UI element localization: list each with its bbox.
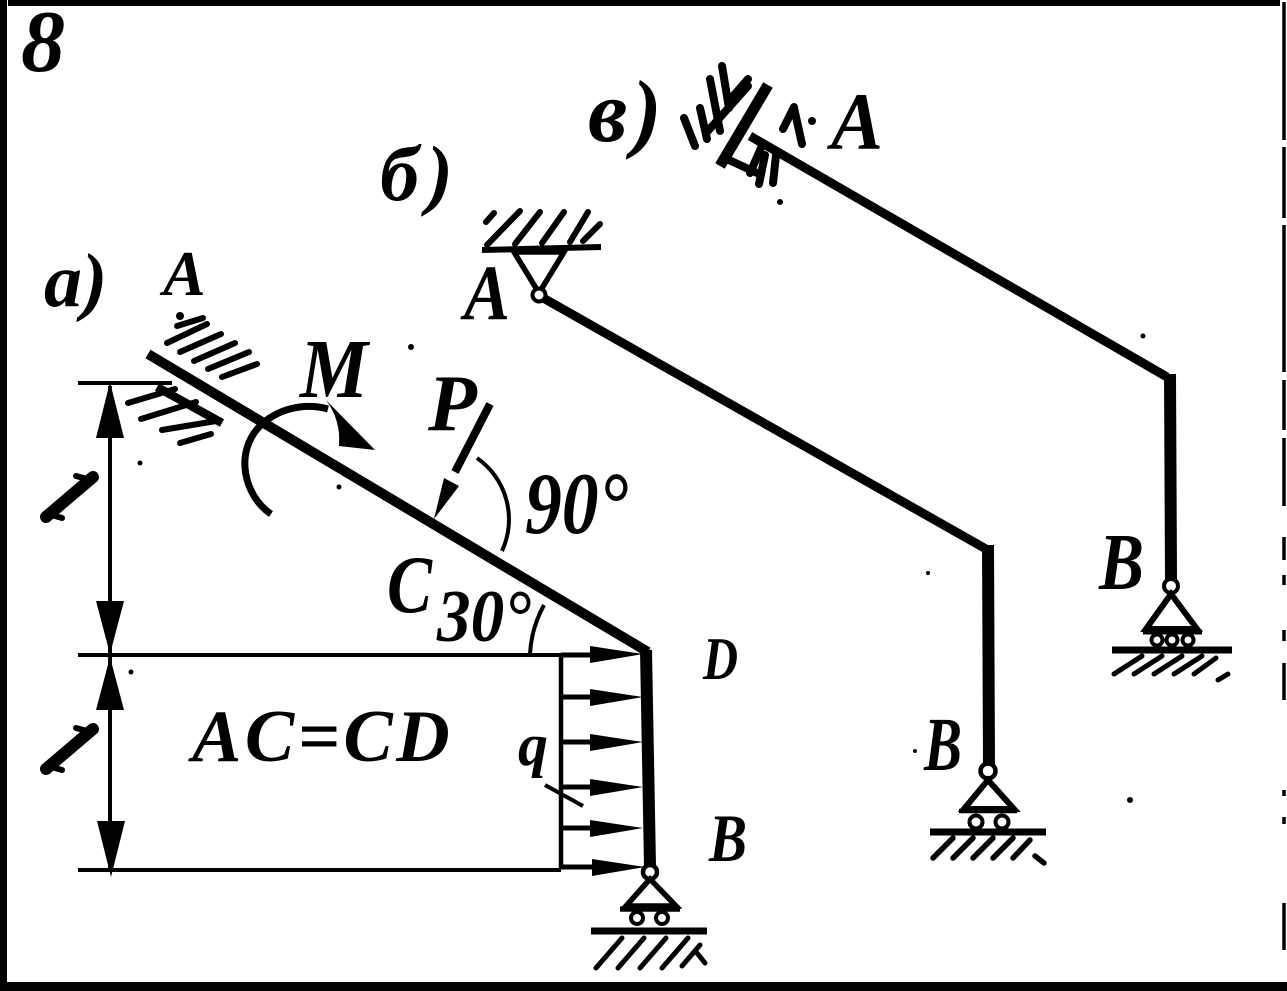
svg-text:в): в)	[588, 64, 667, 161]
svg-text:B: B	[1098, 519, 1144, 607]
svg-text:б): б)	[380, 130, 461, 217]
svg-text:A: A	[460, 249, 510, 336]
svg-text:A: A	[159, 238, 206, 309]
svg-text:а): а)	[44, 239, 107, 323]
svg-text:C: C	[387, 539, 433, 630]
svg-text:8: 8	[21, 0, 65, 91]
svg-text:D: D	[702, 626, 738, 692]
svg-text:AC=CD: AC=CD	[188, 696, 453, 778]
svg-text:A: A	[826, 76, 883, 167]
svg-text:30°: 30°	[436, 576, 531, 658]
svg-text:q: q	[518, 712, 548, 778]
svg-text:B: B	[923, 703, 962, 787]
svg-text:M: M	[298, 323, 371, 416]
svg-text:B: B	[708, 800, 747, 876]
svg-text:90°: 90°	[525, 456, 628, 553]
